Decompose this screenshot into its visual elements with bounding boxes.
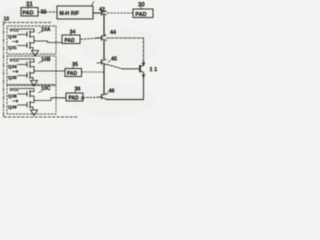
label 31 <box>26 2 33 8</box>
label Q39 <box>8 105 17 111</box>
svg-text:PAD: PAD <box>67 71 78 77</box>
leader 10A <box>39 32 43 34</box>
output wire cell2 to PAD35 <box>34 70 65 72</box>
label Q30 <box>8 34 17 40</box>
label Q35 <box>8 75 17 81</box>
ground arrow cell2 <box>31 81 38 87</box>
svg-text:PAD: PAD <box>65 38 76 44</box>
transistor 44 <box>96 35 107 40</box>
svg-text:10: 10 <box>4 17 10 23</box>
leader for 31 <box>28 6 30 9</box>
chip boundary top dashes <box>4 22 52 24</box>
svg-text:30: 30 <box>12 34 17 39</box>
transistor Q34 <box>18 61 35 71</box>
pad 34 box <box>62 35 80 44</box>
svg-text:CC: CC <box>13 58 19 63</box>
cell 10C dashed box <box>7 86 56 115</box>
label 10C <box>41 86 51 92</box>
svg-text:44: 44 <box>110 30 116 36</box>
pad 30 box <box>133 9 153 18</box>
svg-text:34: 34 <box>12 64 17 69</box>
label 42 <box>99 7 105 13</box>
scan mottle (decorative, unlabeled per rules: background tone patches) <box>0 3 160 116</box>
output wire cell3 to PAD36 <box>34 98 66 101</box>
label 44 <box>110 30 116 36</box>
svg-text:35: 35 <box>12 75 17 80</box>
wire rail 44-45 <box>103 41 105 60</box>
wire rail 42-44 <box>103 16 105 36</box>
leader for 46 <box>106 93 109 95</box>
svg-text:PAD: PAD <box>22 11 33 17</box>
svg-text:30: 30 <box>138 3 145 9</box>
transistor Q39 <box>18 101 35 110</box>
transistor Q35 <box>18 71 35 80</box>
ground arrow cell1 <box>32 51 39 57</box>
Vcc wire cell3 <box>19 89 34 92</box>
svg-text:32: 32 <box>41 10 47 16</box>
svg-text:46: 46 <box>109 89 115 95</box>
Vcc wire cell2 <box>19 59 34 62</box>
transistor Q11 <box>140 65 145 77</box>
svg-text:31: 31 <box>12 45 17 50</box>
transistor Q38 <box>18 91 35 101</box>
svg-text:38: 38 <box>12 94 17 99</box>
label Q31 <box>8 45 17 51</box>
svg-text:CC: CC <box>13 87 19 92</box>
label Q34 <box>8 64 17 70</box>
transistor Q30 <box>18 31 35 41</box>
label 36 <box>75 87 81 93</box>
leader for 45 <box>108 61 111 63</box>
chip boundary dash-dot left <box>3 22 5 117</box>
wire 45 to Q11 gate <box>107 65 122 69</box>
leader tick top-right of block <box>92 2 95 6</box>
wire PAD31 to M-H box <box>38 11 57 13</box>
dashed wire 42 to PAD30 <box>108 12 134 14</box>
node label 32 <box>41 10 47 16</box>
svg-text:10B: 10B <box>41 57 51 63</box>
cell 10A dashed box <box>7 26 56 54</box>
Vcc label cell1 <box>10 28 20 34</box>
svg-text:PAD: PAD <box>135 12 146 18</box>
wire rail 45-46 <box>103 65 105 95</box>
Vcc wire cell1 <box>19 29 34 32</box>
svg-text:10A: 10A <box>41 27 51 33</box>
transistor 45 <box>97 59 107 64</box>
svg-text:1 1: 1 1 <box>150 67 158 73</box>
label 45 <box>111 57 117 63</box>
leader 10C <box>39 91 43 93</box>
svg-text:M-H R/F: M-H R/F <box>60 11 80 17</box>
arrow mark cell1 <box>13 40 19 42</box>
svg-text:35: 35 <box>72 62 78 68</box>
arrow mark cell3 <box>13 100 19 102</box>
junction dot PAD36 wire <box>81 97 83 99</box>
label 35 <box>72 62 78 68</box>
ground arrow cell3 <box>31 110 38 116</box>
Vcc label cell2 <box>10 58 20 64</box>
label 30 <box>138 3 145 9</box>
label 46 <box>109 89 115 95</box>
label 10B <box>41 57 51 63</box>
wire block to transistor 42 <box>93 12 101 14</box>
cell 10B dashed box <box>7 56 56 85</box>
dashed wire PAD36 to 46 base <box>84 96 97 98</box>
wire 44 to Q11 drain <box>107 38 144 61</box>
svg-text:CC: CC <box>13 28 19 33</box>
label 11 <box>150 67 158 73</box>
svg-text:45: 45 <box>111 57 117 63</box>
arrowhead into Q11 drain <box>142 60 145 66</box>
Vcc label cell3 <box>10 87 20 93</box>
pad 36 box <box>66 93 83 101</box>
svg-text:10C: 10C <box>41 86 51 92</box>
pad 35 box <box>65 69 82 77</box>
transistor Q31 <box>18 41 35 50</box>
svg-text:PAD: PAD <box>69 96 80 102</box>
output wire cell1 to PAD34 <box>34 41 62 43</box>
transistor 42 <box>102 11 107 17</box>
leader for 30 <box>140 7 142 10</box>
pad 31 box <box>21 8 38 17</box>
leader 36 <box>75 91 77 94</box>
label Q38 <box>8 94 17 100</box>
svg-text:39: 39 <box>12 105 17 110</box>
chip reference label 10 <box>4 17 10 23</box>
transistor 46 <box>97 94 107 99</box>
junction PAD35 dashed wire to rail <box>82 71 104 73</box>
leader 35 <box>73 66 75 69</box>
leader 10B <box>39 62 43 64</box>
leader 34 <box>70 34 72 36</box>
arrow mark cell2 <box>13 70 19 72</box>
chip boundary bottom dashes <box>4 116 78 118</box>
label 10A <box>41 27 51 33</box>
block M-H R/F U1 <box>57 6 93 19</box>
label 34 <box>70 30 76 36</box>
wire 46 emitter to Q11 source <box>107 78 144 100</box>
dashed wire PAD34 to 44 base <box>81 38 96 39</box>
svg-text:42: 42 <box>99 7 105 13</box>
